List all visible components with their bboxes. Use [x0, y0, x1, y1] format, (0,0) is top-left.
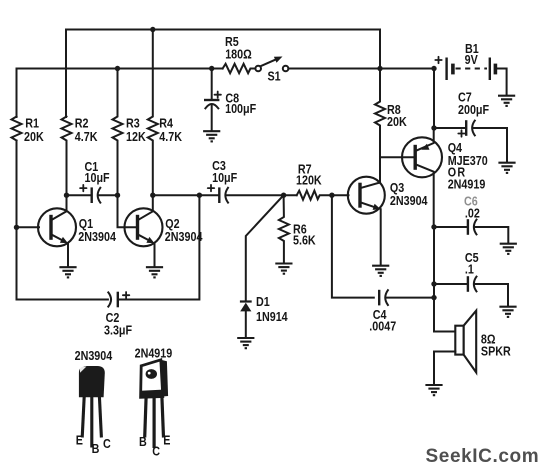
svg-text:S1: S1 — [268, 69, 282, 84]
svg-text:2N3904: 2N3904 — [165, 229, 203, 244]
node C6 junction — [431, 224, 436, 229]
transistor Q4 MJE370 — [402, 128, 488, 227]
node battery positive — [431, 66, 436, 71]
capacitor C2 3.3uF — [104, 292, 132, 338]
ground C6 — [500, 244, 517, 254]
wire rail to speaker — [434, 298, 455, 332]
node Q2 collector — [150, 193, 155, 198]
wire Q4 base lead — [380, 156, 415, 158]
speaker 8 ohm SPKR — [455, 311, 511, 373]
resistor R1 20K — [12, 115, 45, 144]
svg-text:E: E — [163, 432, 170, 447]
svg-text:B: B — [92, 441, 100, 456]
node C7 junction — [431, 125, 436, 130]
wire C3 to R6/D1 node — [226, 194, 297, 196]
capacitor C8 100uF — [204, 69, 256, 131]
svg-text:D1: D1 — [256, 294, 270, 309]
svg-text:20K: 20K — [24, 129, 44, 144]
node R6/D1 junction — [281, 193, 286, 198]
svg-text:.0047: .0047 — [369, 318, 396, 333]
ground battery — [498, 96, 515, 106]
capacitor C3 10uF — [208, 158, 237, 203]
svg-text:4.7K: 4.7K — [75, 129, 98, 144]
resistor R5 — [223, 34, 256, 73]
wire rail C6 to C5 — [433, 227, 435, 284]
transistor Q2 2N3904 — [118, 195, 203, 266]
svg-text:4.7K: 4.7K — [159, 129, 182, 144]
node C8/R5 junction — [209, 66, 214, 71]
ground C5 — [499, 307, 516, 317]
resistor R8 20K — [375, 69, 407, 158]
ground speaker — [425, 385, 442, 395]
svg-text:SeekIC.com: SeekIC.com — [426, 446, 540, 467]
svg-text:2N4919: 2N4919 — [135, 345, 173, 360]
wire C2 to feedback node — [119, 195, 199, 299]
node C4/rail junction — [431, 295, 436, 300]
svg-text:.1: .1 — [465, 262, 474, 277]
svg-text:2N3904: 2N3904 — [75, 348, 113, 363]
svg-text:12K: 12K — [126, 129, 146, 144]
svg-text:2N4919: 2N4919 — [448, 176, 486, 191]
battery B1 9V — [435, 41, 506, 95]
node feedback junction — [197, 193, 202, 198]
svg-text:100μF: 100μF — [225, 101, 256, 116]
svg-text:10μF: 10μF — [212, 170, 237, 185]
resistor R2 4.7K — [62, 115, 98, 195]
capacitor C7 200uF — [434, 89, 507, 161]
capacitor C1 10uF — [67, 159, 110, 203]
resistor R4 4.7K — [148, 30, 183, 196]
node R3 top — [115, 66, 120, 71]
svg-text:120K: 120K — [296, 172, 322, 187]
svg-text:9V: 9V — [465, 52, 478, 67]
ground Q2 — [146, 267, 163, 277]
wire C1 to Q2 base node — [98, 194, 117, 196]
svg-text:1N914: 1N914 — [256, 309, 288, 324]
wire V+ rail right — [288, 68, 434, 70]
ground C8 — [203, 131, 220, 141]
wire Q3 base lead — [332, 194, 349, 196]
svg-text:C: C — [152, 444, 160, 459]
node Q1 base — [14, 225, 19, 230]
transistor Q1 2N3904 — [38, 195, 116, 266]
capacitor C6 .02 — [434, 193, 508, 242]
switch S1 — [255, 57, 288, 84]
svg-text:10μF: 10μF — [85, 170, 110, 185]
node Q2 base junction — [115, 193, 120, 198]
ground C7 — [498, 163, 515, 173]
capacitor C5 .1 — [434, 250, 508, 306]
ground Q1 — [59, 267, 76, 277]
svg-text:5.6K: 5.6K — [293, 232, 316, 247]
svg-text:SPKR: SPKR — [481, 344, 511, 359]
diode D1 1N914 — [240, 195, 288, 337]
wire Q2 collector to C3 — [153, 194, 219, 196]
resistor R3 12K — [113, 69, 147, 196]
wire V+ rail to C7 node — [433, 69, 435, 129]
svg-text:2N3904: 2N3904 — [390, 193, 428, 208]
wire V+ rail left — [17, 69, 223, 118]
transistor Q3 2N3904 — [348, 157, 428, 264]
svg-text:20K: 20K — [387, 114, 407, 129]
node R4 top — [150, 27, 155, 32]
package drawing 2N4919 TO-220 — [135, 345, 173, 458]
svg-text:200μF: 200μF — [458, 102, 489, 117]
resistor R7 120K — [296, 162, 332, 200]
ground D1 — [237, 338, 254, 348]
svg-text:E: E — [76, 432, 83, 447]
wire speaker return — [434, 352, 455, 385]
svg-text:2N3904: 2N3904 — [78, 229, 116, 244]
resistor R6 5.6K — [279, 195, 316, 262]
capacitor C4 .0047 — [369, 290, 434, 334]
wire Q1 base lead — [17, 226, 40, 228]
node Q3 base — [329, 193, 334, 198]
svg-text:B: B — [139, 434, 147, 449]
wire top V+ rail — [66, 30, 380, 118]
ground Q3 — [372, 266, 389, 276]
svg-text:180Ω: 180Ω — [225, 47, 252, 62]
svg-text:C: C — [103, 436, 111, 451]
wire rail C5 to C4 — [433, 284, 435, 298]
ground R6 — [275, 264, 292, 274]
svg-text:.02: .02 — [465, 206, 480, 221]
package drawing 2N3904 TO-92 — [75, 348, 113, 456]
node R8 top — [377, 66, 382, 71]
node Q1 collector — [64, 193, 69, 198]
wire Q3 base to C4 — [332, 195, 374, 297]
svg-text:3.3μF: 3.3μF — [104, 323, 132, 338]
wire R1 to Q1 base and C2 — [17, 141, 108, 300]
node C5 junction — [431, 281, 436, 286]
